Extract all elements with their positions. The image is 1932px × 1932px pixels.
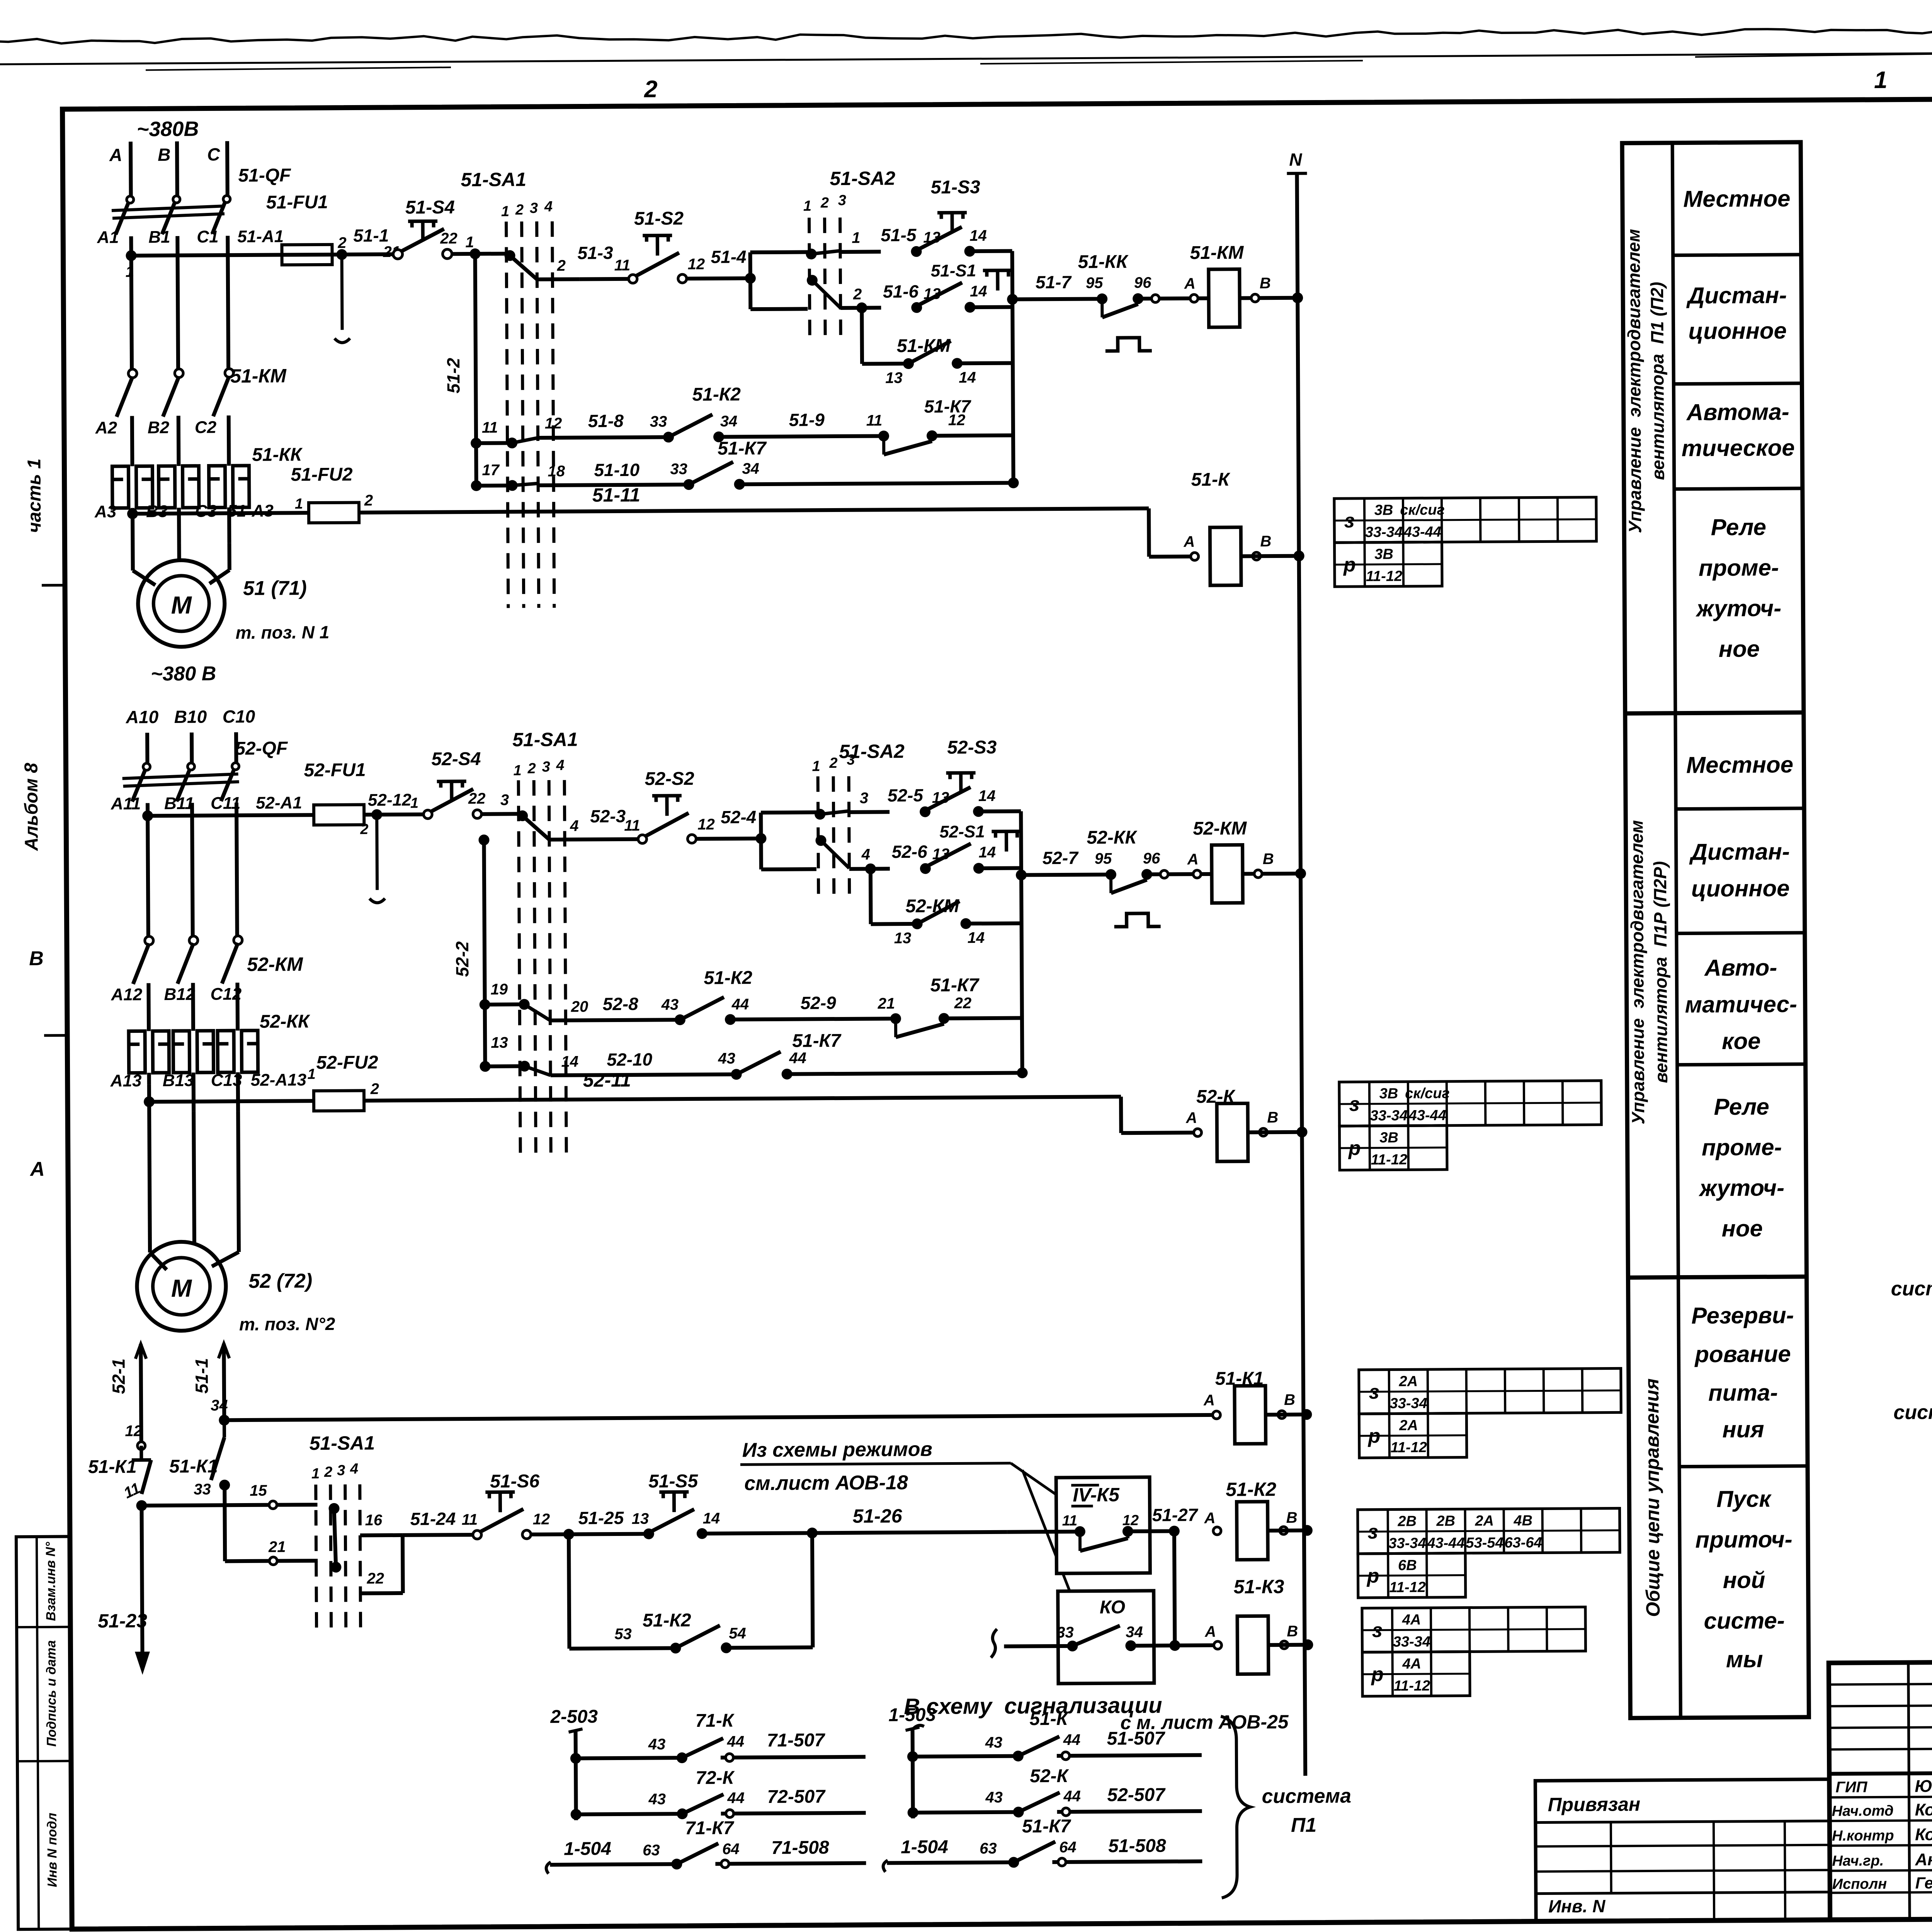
svg-text:51-S6: 51-S6 [490, 1471, 540, 1492]
svg-text:вентилятора П1 (П2): вентилятора П1 (П2) [1647, 282, 1668, 480]
svg-text:ционное: ционное [1688, 318, 1787, 344]
svg-text:51-7: 51-7 [1036, 272, 1072, 292]
svg-text:51-S1: 51-S1 [931, 261, 976, 281]
svg-text:51-FU2: 51-FU2 [291, 464, 353, 485]
phase B wire [177, 416, 181, 466]
привязан box [1535, 1779, 1830, 1922]
wire KK to coil [1142, 296, 1209, 301]
switch 51-SA2 dashed line 3 [840, 218, 841, 336]
switch 51-S6 [473, 1531, 481, 1539]
svg-text:Реле: Реле [1711, 514, 1767, 540]
wire into KO [1004, 1644, 1072, 1648]
row 71-K wire [576, 1758, 682, 1758]
svg-text:64: 64 [722, 1840, 740, 1857]
svg-text:В10: В10 [174, 707, 207, 727]
svg-text:17: 17 [482, 462, 500, 479]
svg-text:3: 3 [860, 790, 868, 807]
wire KM aux 52 [871, 922, 917, 926]
wire 52-11 left [147, 1084, 151, 1102]
wires below heaters 52 [147, 1073, 151, 1084]
main control wire row 1 [131, 255, 282, 256]
svg-text:51-27: 51-27 [1152, 1505, 1199, 1525]
contact 51-K7 break row 52-8 [890, 1013, 901, 1024]
svg-text:В: В [1287, 1623, 1298, 1640]
switch 51-SA2 dashed line 1 [809, 218, 810, 336]
tall table row line [1676, 808, 1804, 809]
svg-text:3В: 3В [1379, 1085, 1398, 1102]
svg-text:С2: С2 [195, 418, 217, 437]
svg-text:2-503: 2-503 [550, 1706, 598, 1727]
wire KO out [1131, 1643, 1175, 1648]
svg-text:18: 18 [548, 463, 565, 480]
wire SA1 out row2 [537, 277, 580, 281]
svg-text:2: 2 [360, 821, 368, 837]
wire to bus [739, 483, 1014, 485]
svg-text:система: система [1893, 1401, 1932, 1424]
wire KM aux [862, 362, 908, 366]
svg-text:1: 1 [852, 230, 860, 247]
wire coil 51-K1 to N [1265, 1413, 1306, 1417]
svg-text:44: 44 [731, 996, 749, 1013]
wire to 52-S4 [364, 813, 426, 817]
feeder 51-1 arrow [224, 1344, 224, 1420]
svg-text:52-S4: 52-S4 [431, 749, 481, 770]
svg-text:2: 2 [853, 286, 862, 303]
svg-text:33-34: 33-34 [1388, 1535, 1426, 1552]
pushbutton 52-S1 [920, 863, 931, 874]
wire coil 51-K to N [1241, 554, 1299, 558]
wire coil 51-K2 to N [1268, 1529, 1307, 1533]
svg-text:4: 4 [570, 818, 578, 835]
SA2-52 contact row2 [815, 835, 826, 846]
row 71-K7 wire [546, 1862, 551, 1874]
svg-text:Н.контр: Н.контр [1832, 1828, 1894, 1844]
svg-text:14: 14 [968, 929, 985, 946]
svg-text:4: 4 [350, 1461, 358, 1477]
svg-text:13: 13 [491, 1034, 508, 1051]
svg-text:2: 2 [515, 202, 524, 218]
svg-text:3: 3 [530, 200, 538, 216]
svg-text:71-507: 71-507 [767, 1730, 826, 1751]
vertical feeder row2 to KM aux 52 [869, 869, 873, 924]
switch 51-SA1 dashed line 3 [537, 221, 539, 608]
left margin tick [44, 1034, 67, 1037]
svg-text:кое: кое [1722, 1028, 1761, 1054]
svg-text:В: В [1267, 1109, 1278, 1126]
breaker blade phase C [212, 196, 228, 234]
svg-text:Привязан: Привязан [1548, 1793, 1640, 1815]
svg-text:43: 43 [648, 1791, 666, 1808]
switch 51-SA1 dashed line 4 [552, 221, 554, 608]
svg-text:72-К: 72-К [696, 1767, 735, 1788]
row 52-K wire [913, 1812, 1019, 1813]
svg-text:2А: 2А [1475, 1513, 1494, 1529]
svg-text:2: 2 [557, 257, 566, 274]
breaker blade phase B [162, 196, 178, 234]
left bottom stamp strip [16, 1536, 72, 1929]
svg-text:51-26: 51-26 [853, 1505, 903, 1527]
svg-text:2В: 2В [1436, 1513, 1455, 1529]
svg-text:71-508: 71-508 [771, 1837, 829, 1858]
relay coil 51-K3 [1237, 1616, 1269, 1674]
wire row to SA1 [142, 1505, 318, 1505]
tap wire 11 [476, 441, 509, 445]
node vertical SA2-52 [759, 813, 763, 869]
wire bus to KK [1012, 299, 1097, 299]
svg-text:Подпись и дата: Подпись и дата [44, 1640, 59, 1747]
svg-text:51-КМ: 51-КМ [1190, 242, 1244, 263]
svg-text:6В: 6В [1398, 1557, 1417, 1573]
wire SA1-52 out [549, 837, 590, 842]
svg-text:14: 14 [978, 787, 996, 804]
wire S6 to node [531, 1534, 644, 1535]
spare stub wire [342, 255, 342, 330]
pushbutton 52-S3 [920, 806, 930, 817]
svg-text:96: 96 [1143, 850, 1160, 867]
svg-text:А13: А13 [110, 1071, 142, 1090]
svg-text:51-К2: 51-К2 [643, 1610, 691, 1631]
motor 51 outer circle [138, 560, 225, 647]
tap wire 17 [476, 483, 509, 487]
svg-text:51-4: 51-4 [711, 247, 746, 267]
left margin tick [42, 584, 65, 587]
contactor coil 51-KM [1209, 269, 1240, 327]
svg-text:51-К7: 51-К7 [1022, 1816, 1071, 1837]
wire 71-507 [721, 1757, 866, 1758]
svg-text:С10: С10 [223, 706, 255, 726]
underline [740, 1463, 1011, 1465]
svg-text:В11: В11 [164, 794, 194, 813]
wire 53-54 right [726, 1647, 813, 1648]
tall table row line [1679, 1466, 1808, 1467]
switch SA2-52 dashed line 2 [833, 776, 834, 896]
svg-text:3: 3 [337, 1463, 345, 1479]
svg-text:43: 43 [985, 1789, 1003, 1806]
svg-text:з: з [1369, 1381, 1379, 1403]
svg-text:43: 43 [985, 1734, 1003, 1751]
svg-text:53: 53 [614, 1626, 632, 1643]
svg-text:ционное: ционное [1691, 875, 1790, 901]
wire 51-23 down [142, 1505, 143, 1668]
svg-text:С1: С1 [197, 227, 219, 246]
svg-text:51-24: 51-24 [410, 1509, 456, 1529]
tall table row line [1673, 383, 1802, 384]
tall table section divider 2 [1628, 1277, 1806, 1277]
svg-text:52-1: 52-1 [109, 1359, 129, 1394]
svg-text:тическое: тическое [1682, 435, 1795, 461]
contact table relay 51-K2 [1358, 1508, 1620, 1554]
tap wire 19 [485, 1002, 521, 1006]
svg-text:52-К: 52-К [1030, 1766, 1070, 1787]
contact 71-K [677, 1752, 687, 1763]
svg-text:Автома-: Автома- [1686, 399, 1789, 425]
phase A wire below breaker [131, 236, 132, 377]
svg-text:~380 В: ~380 В [151, 662, 216, 685]
wire IV-K5 into [1007, 1530, 1080, 1534]
wire 51-11 long [359, 509, 1149, 513]
wire 71-508 [715, 1863, 866, 1864]
svg-text:43-44: 43-44 [1403, 524, 1441, 541]
svg-text:51-К: 51-К [1191, 469, 1231, 490]
wire coil to N bus [1240, 296, 1298, 300]
svg-text:N: N [1289, 150, 1302, 170]
svg-text:Авто-: Авто- [1704, 954, 1777, 981]
svg-text:Юдин: Юдин [1915, 1777, 1932, 1796]
svg-text:51 (71): 51 (71) [243, 577, 307, 600]
motor 52 outer circle [137, 1242, 226, 1331]
svg-text:М: М [171, 591, 192, 619]
svg-text:51-1: 51-1 [192, 1358, 212, 1393]
svg-text:33-34: 33-34 [1370, 1107, 1408, 1124]
svg-text:В: В [29, 947, 44, 970]
contact 51-K7 on row 51-10 [684, 479, 694, 490]
node vertical to SA2 rows [748, 252, 753, 309]
KM main contact C [225, 369, 233, 377]
phase C wire below breaker [228, 236, 228, 376]
right bus vertical circuit 51 [1012, 251, 1014, 484]
svg-text:63: 63 [980, 1840, 997, 1857]
svg-text:Инв N подл: Инв N подл [45, 1813, 60, 1887]
vertical joining 16/22 [401, 1535, 405, 1593]
switch 52-S4 [423, 810, 432, 819]
svg-text:А3: А3 [94, 502, 117, 521]
svg-text:1: 1 [501, 203, 509, 219]
wire row2 to bus [970, 305, 1012, 310]
svg-text:51-К2: 51-К2 [704, 968, 752, 988]
svg-text:В: В [1260, 533, 1271, 550]
svg-text:В: В [1263, 850, 1274, 867]
svg-text:1-504: 1-504 [564, 1838, 611, 1859]
svg-text:51-23: 51-23 [98, 1610, 147, 1632]
svg-text:52-КМ: 52-КМ [247, 953, 303, 975]
breaker 52-QF tie bar [122, 774, 238, 779]
wire SA2 row2 out [840, 306, 881, 310]
breaker blade A10 [132, 764, 148, 801]
svg-text:51-507: 51-507 [1107, 1728, 1166, 1749]
svg-text:~380В: ~380В [137, 117, 199, 141]
svg-text:54: 54 [729, 1625, 746, 1642]
KM main contact A [128, 369, 137, 378]
svg-text:51-КК: 51-КК [1078, 252, 1129, 272]
wire to S6 [403, 1533, 475, 1537]
svg-text:Нач.гр.: Нач.гр. [1832, 1853, 1884, 1869]
relay coil 51-K2 [1236, 1502, 1268, 1560]
wire 52-11 long [364, 1097, 1121, 1100]
contact table relay 51-K [1334, 497, 1597, 543]
svg-text:52-6: 52-6 [892, 842, 928, 862]
switch 51-SA2 dashed line 2 [825, 218, 825, 336]
wire to S2 [580, 277, 633, 281]
svg-text:2: 2 [820, 195, 829, 211]
svg-text:51-QF: 51-QF [238, 165, 291, 186]
svg-text:52 (72): 52 (72) [248, 1270, 312, 1293]
svg-text:51-10: 51-10 [594, 460, 639, 480]
svg-text:2: 2 [370, 1080, 379, 1097]
svg-text:22: 22 [440, 230, 457, 247]
wire to bus [787, 1073, 1022, 1074]
svg-text:52-А1: 52-А1 [256, 793, 302, 813]
svg-text:21: 21 [878, 995, 895, 1012]
vertical drop at 2095 [812, 1533, 813, 1647]
svg-text:22: 22 [954, 995, 972, 1012]
phase A10 lead-in [145, 733, 149, 764]
svg-text:В: В [1260, 275, 1271, 292]
svg-text:43-44: 43-44 [1408, 1107, 1446, 1124]
contact 51-K [1013, 1751, 1024, 1762]
svg-text:14: 14 [959, 369, 976, 386]
contact 71-K7 [671, 1859, 682, 1869]
svg-text:51-11: 51-11 [592, 484, 640, 506]
svg-text:пита-: пита- [1708, 1379, 1778, 1406]
svg-text:52-FU1: 52-FU1 [304, 760, 366, 781]
thermal heater phase C [209, 466, 225, 507]
svg-text:51-S2: 51-S2 [634, 208, 684, 229]
wire down branch [761, 867, 816, 871]
tap wire 13 [485, 1064, 522, 1068]
thermal heater phase B 52 [173, 1031, 190, 1073]
wire row1 to bus 52 [978, 810, 1021, 814]
svg-text:52-3: 52-3 [590, 806, 626, 826]
wire coil 52-K to N [1248, 1130, 1302, 1134]
right bus vertical circuit 52 [1021, 811, 1022, 1074]
svg-text:Управление электродвигателем: Управление электродвигателем [1626, 820, 1648, 1124]
svg-text:А1: А1 [97, 228, 119, 247]
box IV-K5 [1056, 1477, 1150, 1573]
vertical feeder from row2 to KM aux [860, 308, 864, 364]
wire S4 to SA1 [482, 812, 520, 816]
SA1 contact row1 [505, 250, 515, 261]
svg-text:4: 4 [861, 846, 870, 863]
wire node down-branch [750, 307, 808, 311]
switch 51-SA1 dashed line 2 [522, 221, 524, 608]
svg-text:63-64: 63-64 [1504, 1534, 1542, 1551]
svg-text:А12: А12 [111, 985, 143, 1004]
pushbutton 51-S1 [911, 302, 922, 313]
svg-text:43: 43 [648, 1736, 666, 1753]
svg-text:16: 16 [365, 1512, 383, 1529]
KO contact [1067, 1641, 1078, 1651]
svg-text:11: 11 [624, 817, 640, 834]
svg-text:52-S2: 52-S2 [645, 769, 695, 789]
svg-text:Реле: Реле [1714, 1094, 1769, 1120]
svg-text:4: 4 [556, 757, 564, 774]
row 53-54 wire [569, 1648, 675, 1648]
top line fragment [146, 67, 451, 70]
switch 51-S4 [393, 250, 402, 259]
svg-text:Резерви-: Резерви- [1691, 1302, 1794, 1328]
tall table row line [1677, 933, 1805, 934]
svg-text:С: С [207, 144, 220, 164]
svg-text:2: 2 [527, 760, 536, 777]
SA1 bottom contact [328, 1503, 339, 1514]
wire SA2-52 row1 out [849, 810, 889, 814]
svg-text:52-8: 52-8 [603, 994, 639, 1014]
top straight line [0, 49, 1932, 65]
contact 51-K7 bottom [1008, 1857, 1019, 1868]
svg-text:Нач.отд: Нач.отд [1832, 1803, 1894, 1820]
svg-text:64: 64 [1059, 1839, 1077, 1856]
SA2 contact row1 [806, 248, 816, 259]
svg-text:14: 14 [703, 1510, 720, 1527]
fuse 52-FU2 [314, 1090, 364, 1111]
wire KM aux to bus 52 [964, 922, 1022, 926]
phase wires to motor 52 [149, 1102, 150, 1252]
SA1 bottom dashed line 1 [316, 1485, 316, 1634]
leader line to IV-K5 [1011, 1463, 1065, 1501]
thermal contact 52-KK [1105, 869, 1116, 880]
svg-text:Местное: Местное [1686, 752, 1793, 778]
svg-text:1-503: 1-503 [888, 1705, 936, 1726]
fuse 51-FU1 [282, 245, 332, 265]
svg-text:34: 34 [720, 413, 738, 430]
node 51-K1 [136, 1500, 147, 1511]
svg-text:11-12: 11-12 [1394, 1678, 1430, 1694]
svg-text:72-507: 72-507 [767, 1786, 826, 1807]
svg-text:44: 44 [727, 1789, 745, 1806]
svg-text:А11: А11 [111, 794, 141, 813]
svg-text:Антохина: Антохина [1915, 1850, 1932, 1869]
svg-text:А: А [1185, 1109, 1197, 1126]
svg-text:4А: 4А [1402, 1612, 1421, 1628]
svg-text:з: з [1344, 510, 1355, 532]
svg-text:3В: 3В [1374, 502, 1393, 518]
wire S2 to node [687, 276, 750, 281]
svg-text:3: 3 [838, 192, 846, 209]
svg-text:система: система [1262, 1785, 1351, 1808]
wire 72-507 [721, 1813, 866, 1814]
svg-text:А10: А10 [126, 707, 159, 727]
breaker 51-QF tie bar [112, 206, 224, 211]
svg-text:12: 12 [688, 256, 705, 273]
svg-text:51-SA1: 51-SA1 [512, 729, 578, 751]
svg-text:р: р [1371, 1663, 1384, 1686]
svg-text:51-К2: 51-К2 [1226, 1478, 1276, 1500]
svg-text:52-2: 52-2 [452, 941, 472, 977]
svg-text:р: р [1367, 1425, 1381, 1447]
svg-text:3: 3 [847, 752, 855, 768]
wire row1 to bus [970, 249, 1012, 253]
SA1 bottom dashed line 4 [360, 1485, 361, 1634]
svg-text:11: 11 [482, 419, 498, 436]
svg-text:ное: ное [1719, 636, 1760, 662]
switch SA2-52 dashed line 3 [849, 776, 850, 896]
wire KM aux to bus [955, 361, 1013, 366]
wire coil to N bus 52 [1243, 872, 1301, 876]
wire coil 51-K3 to N [1268, 1643, 1308, 1647]
wire SA1 out row 22 [361, 1591, 403, 1595]
svg-text:приточ-: приточ- [1695, 1526, 1792, 1553]
svg-text:В: В [158, 145, 171, 165]
svg-text:11-12: 11-12 [1390, 1439, 1427, 1456]
svg-text:33-34: 33-34 [1393, 1634, 1430, 1650]
switch SA1-52 dashed line 2 [534, 780, 536, 1158]
main wire 52 row1 [148, 815, 314, 816]
svg-text:С13: С13 [211, 1071, 242, 1090]
svg-text:В1: В1 [148, 228, 170, 247]
svg-text:11-12: 11-12 [1366, 568, 1403, 584]
wire [719, 436, 879, 437]
vertical 51-2 [475, 254, 476, 487]
contact 51-K7 on row 52-10 [731, 1069, 742, 1080]
svg-text:А: А [1204, 1510, 1216, 1527]
row 51-K7 wire [883, 1860, 888, 1872]
svg-text:А: А [1204, 1623, 1216, 1640]
svg-text:15: 15 [250, 1482, 267, 1499]
vertical drop at 1465 [569, 1534, 570, 1649]
svg-text:51-1: 51-1 [353, 225, 389, 245]
wire IV-K5 out [1128, 1529, 1174, 1533]
svg-text:1: 1 [311, 1466, 320, 1482]
